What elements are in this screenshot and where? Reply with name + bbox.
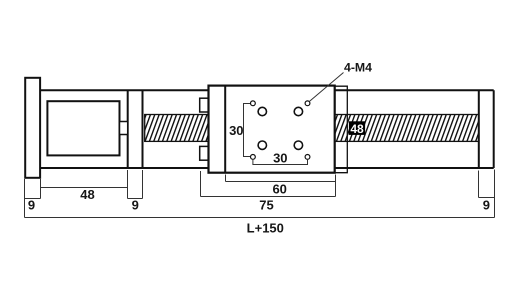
svg-text:30: 30	[273, 150, 287, 165]
svg-text:48: 48	[350, 122, 364, 136]
svg-text:48: 48	[80, 187, 94, 202]
svg-text:60: 60	[272, 182, 286, 197]
svg-text:4-M4: 4-M4	[344, 60, 372, 74]
svg-text:75: 75	[259, 197, 273, 212]
svg-text:9: 9	[483, 198, 490, 213]
svg-text:L+150: L+150	[247, 221, 284, 236]
svg-text:30: 30	[229, 123, 243, 138]
svg-text:9: 9	[28, 198, 35, 213]
svg-text:9: 9	[132, 198, 139, 213]
